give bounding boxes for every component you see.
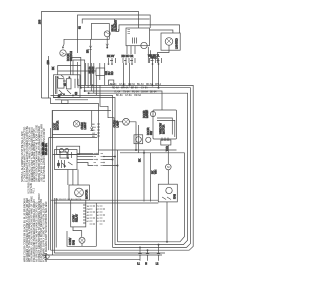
notes text block 1 <box>20 124 46 182</box>
svg-text:BR-6A: BR-6A <box>131 87 138 90</box>
svg-text:RD-6A: RD-6A <box>112 87 119 90</box>
box-to-pin drops <box>127 46 135 54</box>
svg-text:LATCH: LATCH <box>145 110 149 118</box>
svg-text:BK: BK <box>51 66 55 70</box>
chain motor circle <box>166 164 172 170</box>
wire bottom of upper section <box>42 98 99 111</box>
svg-text:OR-64: OR-64 <box>128 84 135 86</box>
vertical 91.3 <box>90 63 92 91</box>
wire lamp E to vertical <box>129 122 136 150</box>
component circle A door switch <box>60 50 66 56</box>
tiny label row above <box>56 199 82 201</box>
vertical 88.1 <box>87 63 89 88</box>
fan enclosure <box>67 231 96 246</box>
svg-text:GY-64: GY-64 <box>119 84 126 86</box>
svg-text:YL-64: YL-64 <box>114 92 121 94</box>
cluster verticals down <box>68 170 78 186</box>
wire H99.8 <box>55 99 88 101</box>
pin group 2 under box <box>122 55 136 65</box>
vertical 104.7 <box>104 63 106 85</box>
svg-text:12: 12 <box>97 221 100 223</box>
module pins bottom <box>162 138 168 142</box>
element circle B <box>104 31 110 37</box>
svg-text:MOTOR: MOTOR <box>85 190 89 199</box>
relay sub-box 1 <box>58 79 64 88</box>
connector mark BR on v90.6 <box>89 46 92 50</box>
terminal L1 <box>137 247 142 266</box>
wire bottom left long 2 <box>45 258 140 260</box>
vertical 150.5 <box>150 153 152 202</box>
wire L4 <box>119 25 180 33</box>
lower schematic box <box>52 111 111 138</box>
svg-text:92: 92 <box>78 26 82 29</box>
pin group 1 under box <box>107 55 116 65</box>
lamp box oven light <box>161 33 180 50</box>
svg-text:LIGHTED: LIGHTED <box>175 38 179 49</box>
vertical 90.6 <box>90 39 92 85</box>
svg-text:WIRING DIAGRAM PART NO 8101P53: WIRING DIAGRAM PART NO 8101P538-60 SER J… <box>44 201 48 262</box>
svg-text:2W: 2W <box>87 209 90 211</box>
wires H150 <box>99 149 177 151</box>
svg-text:RD: RD <box>92 130 96 132</box>
terminal N <box>145 250 149 266</box>
svg-text:N: N <box>145 263 147 266</box>
junction dots <box>57 77 58 78</box>
svg-text:OR-6A: OR-6A <box>134 94 141 97</box>
vertical 99.8b <box>99 63 101 80</box>
fanout wire 1 <box>77 153 93 155</box>
svg-text:11: 11 <box>97 218 100 220</box>
U wires inside module <box>157 118 172 135</box>
wires H152.8 <box>118 153 185 242</box>
svg-text:5B: 5B <box>87 218 90 220</box>
svg-text:WH: WH <box>154 170 158 174</box>
wire lamp bottom <box>158 45 170 63</box>
wire vertical pair mid <box>138 125 140 153</box>
wire L1 outer top <box>42 12 139 99</box>
svg-text:L2: L2 <box>156 263 159 266</box>
svg-text:BK: BK <box>138 158 142 162</box>
vertical 96.3 <box>95 75 97 95</box>
relay cluster outer box <box>54 75 81 98</box>
svg-text:1B: 1B <box>87 206 90 208</box>
svg-text:9. SEE INSTALLATION INSTRUCTIO: 9. SEE INSTALLATION INSTRUCTIONS FOR W <box>42 128 46 182</box>
left vertical bundle <box>48 138 50 251</box>
svg-text:RD BU OR: RD BU OR <box>122 55 134 58</box>
pin out wires right <box>103 157 118 166</box>
cluster2 dots <box>59 151 60 152</box>
cluster2 sub box <box>60 152 67 158</box>
svg-text:8T: 8T <box>97 209 100 211</box>
inner box bottom of lower box <box>57 146 80 154</box>
wire W2 lamp feed <box>150 30 173 33</box>
small box on bundle <box>109 80 114 85</box>
inner box circle 1 <box>60 149 64 153</box>
svg-text:FAN: FAN <box>172 194 176 199</box>
svg-text:WH-6A: WH-6A <box>121 87 129 90</box>
svg-text:BK-64: BK-64 <box>150 92 157 94</box>
vertical 85.6 <box>85 63 87 85</box>
wire H91 <box>85 91 162 110</box>
box bake element B <box>91 24 109 40</box>
svg-text:GY: GY <box>92 133 96 135</box>
wire L3 <box>82 19 149 24</box>
svg-text:M: M <box>167 165 169 169</box>
svg-text:BU: BU <box>92 136 95 138</box>
svg-text:6O: 6O <box>87 221 90 223</box>
chain box switch <box>162 197 171 200</box>
cluster2 bars <box>59 152 72 168</box>
svg-text:9P: 9P <box>97 212 100 214</box>
cluster2 diagonals <box>62 162 73 167</box>
ground circle <box>46 255 50 259</box>
svg-text:GN-64: GN-64 <box>141 92 148 94</box>
svg-text:BU-64: BU-64 <box>137 84 144 86</box>
chain wires <box>167 145 169 184</box>
pins inside control box right <box>133 38 137 44</box>
vertical 92.5 <box>93 63 95 93</box>
svg-text:MOTOR: MOTOR <box>162 125 166 134</box>
pin row block A <box>94 153 105 166</box>
wire L2 <box>78 15 151 53</box>
svg-text:BK: BK <box>92 124 95 126</box>
lamp circle E <box>123 118 130 125</box>
lamp circle oven light <box>165 38 173 46</box>
svg-text:BK GY: BK GY <box>107 55 115 58</box>
svg-text:7Y: 7Y <box>97 206 100 208</box>
vertical 117.5 <box>117 150 119 242</box>
lamp circle D <box>73 121 79 127</box>
inner box left edge <box>48 56 50 98</box>
wire H97.5 <box>53 98 115 245</box>
svg-text:FAN: FAN <box>72 240 76 245</box>
svg-text:10: 10 <box>97 215 100 217</box>
outermost bottom line <box>54 252 165 254</box>
wire bottom left long 1 <box>42 254 162 256</box>
relay sub-box 2 <box>66 79 71 89</box>
pin drop verticals <box>124 63 159 88</box>
fanout wire 3 <box>77 159 93 161</box>
relay cluster box <box>51 58 85 99</box>
svg-text:LIGHT: LIGHT <box>83 122 87 130</box>
svg-text:206: 206 <box>38 19 42 24</box>
marks inside control box left <box>128 30 131 34</box>
relay box wires top <box>58 66 81 75</box>
lower horizontals <box>51 199 159 201</box>
svg-text:BR: BR <box>86 49 90 53</box>
switch at A <box>62 44 64 48</box>
svg-text:WH BR YL: WH BR YL <box>148 55 160 58</box>
chain: connector box <box>161 140 171 145</box>
svg-text:K2: K2 <box>74 91 78 95</box>
junction dots <box>135 149 136 150</box>
svg-text:WH-4: WH-4 <box>155 84 162 86</box>
vertical 77.5 lower <box>77 62 79 85</box>
big control box <box>126 28 150 46</box>
svg-text:SW: SW <box>149 130 153 135</box>
svg-text:CONV: CONV <box>68 237 72 245</box>
wires down <box>73 203 96 246</box>
circle B bottom drop <box>106 37 108 47</box>
wire H137.5 <box>49 137 97 139</box>
pin stub row above box <box>116 29 119 31</box>
circle F door sw <box>136 137 142 143</box>
bottom-left module box <box>71 200 86 227</box>
wire H96 <box>51 95 113 247</box>
svg-text:180: 180 <box>46 60 50 65</box>
fanout wire 4 <box>77 163 93 166</box>
relay cluster 2 box <box>55 150 78 170</box>
conv fan motor <box>79 237 85 243</box>
lower box pins label col <box>97 124 100 136</box>
pins right edge <box>83 205 86 223</box>
mini note between blocks <box>28 182 36 194</box>
svg-text:3R: 3R <box>87 212 90 214</box>
relay diagonals <box>59 75 71 94</box>
wire y71 <box>58 70 96 72</box>
wire box B bottom to left <box>64 39 91 44</box>
svg-text:GY-6A: GY-6A <box>125 94 132 97</box>
connector cluster pins <box>90 206 105 225</box>
svg-text:PU-64: PU-64 <box>132 92 139 94</box>
wire lamp E feed <box>100 85 123 121</box>
junction dots mid band <box>92 85 93 86</box>
wire fan bottom <box>81 243 83 246</box>
svg-text:WH: WH <box>92 127 96 129</box>
wire H87 <box>81 88 191 248</box>
svg-text:ELEMENT: ELEMENT <box>114 19 118 31</box>
wire H134.5 <box>53 134 98 136</box>
svg-text:4G: 4G <box>87 215 90 217</box>
small stub box on bottom wire <box>62 100 68 104</box>
connector symbol 91.7 <box>91 111 93 128</box>
inner box circle 2 <box>65 149 69 153</box>
wire label cluster mid <box>88 66 114 75</box>
svg-text:GY-6A: GY-6A <box>141 87 148 90</box>
terminal L2 <box>156 244 161 266</box>
svg-text:RELAY: RELAY <box>75 214 79 222</box>
vertical 144 <box>143 150 145 202</box>
chain box bottom drop <box>166 202 168 242</box>
chain lower box <box>158 184 177 202</box>
relay bars <box>55 76 57 94</box>
circle F2 <box>146 137 151 142</box>
module box right mid <box>145 110 177 141</box>
chain box circle <box>166 187 172 193</box>
module circle <box>150 111 155 116</box>
F box <box>134 135 143 144</box>
transformer box <box>69 185 89 200</box>
wire H85 <box>51 85 194 250</box>
svg-text:L1: L1 <box>137 263 140 266</box>
svg-text:PG 2: PG 2 <box>33 187 36 193</box>
svg-text:MOTOR: MOTOR <box>56 121 60 130</box>
svg-text:TN-64: TN-64 <box>123 92 130 94</box>
label row on mid band <box>110 84 162 97</box>
svg-text:RD-64: RD-64 <box>146 84 153 86</box>
transformer circle <box>75 188 84 197</box>
svg-text:RD: RD <box>110 71 114 75</box>
svg-text:SWITCH: SWITCH <box>69 51 73 61</box>
wire H93 <box>89 93 188 244</box>
pin group 3 under box <box>148 55 162 65</box>
notes text block 2 <box>22 193 48 262</box>
control circle C <box>141 42 147 48</box>
fanout wire 2 <box>77 156 93 158</box>
wire right small verticals <box>148 47 150 63</box>
svg-text:BK-6A: BK-6A <box>116 94 123 97</box>
